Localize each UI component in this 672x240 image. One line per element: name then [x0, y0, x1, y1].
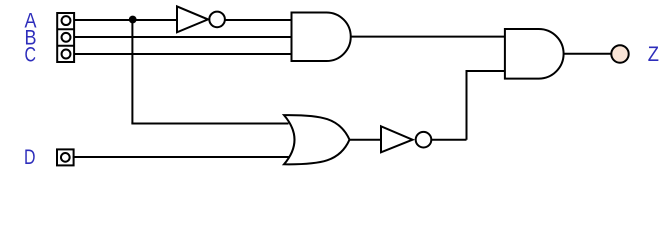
wire D to OR1	[73, 156, 289, 158]
inverter U1 triangle	[177, 6, 208, 32]
wire inverter U2 right	[431, 139, 466, 141]
AND gate G1	[292, 13, 351, 62]
wire up to AND2	[467, 71, 506, 140]
svg-text:Z: Z	[648, 42, 659, 66]
wire AND2 to Z	[564, 53, 612, 55]
input connector ABC	[57, 13, 74, 62]
output Z circle	[611, 45, 628, 62]
inverter U2 triangle	[381, 126, 413, 152]
inverter U1 bubble	[209, 12, 225, 28]
AND gate G3	[505, 29, 564, 79]
svg-text:D: D	[24, 145, 36, 169]
wire branch A down	[131, 20, 133, 124]
wire inverter U1 to AND1	[225, 19, 292, 21]
input connector D	[57, 149, 74, 165]
wire AND1 to AND2	[351, 36, 505, 38]
wire OR1 to inverter U2	[350, 139, 382, 141]
svg-text:C: C	[25, 42, 37, 66]
junction dot on A	[129, 16, 137, 24]
OR gate G2	[284, 115, 350, 164]
wire B to AND1	[74, 36, 292, 38]
wire C to AND1	[74, 53, 292, 55]
inverter U2 bubble	[416, 132, 432, 148]
wire A to inverter	[74, 19, 177, 21]
wire branch A to OR1	[131, 123, 288, 125]
